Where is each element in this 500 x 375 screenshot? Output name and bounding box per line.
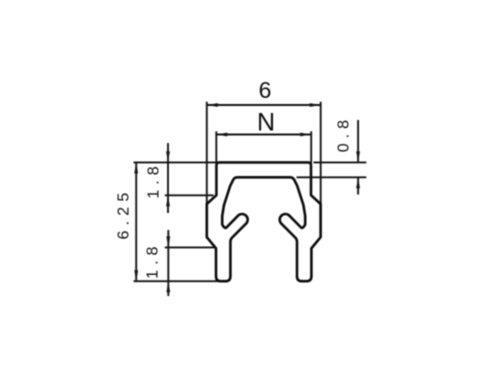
svg-text:6: 6	[259, 77, 272, 103]
svg-text:1.8: 1.8	[144, 242, 161, 279]
svg-text:1.8: 1.8	[146, 161, 163, 198]
svg-text:0.8: 0.8	[336, 115, 353, 152]
svg-text:N: N	[257, 109, 275, 137]
svg-text:6.25: 6.25	[116, 188, 133, 240]
